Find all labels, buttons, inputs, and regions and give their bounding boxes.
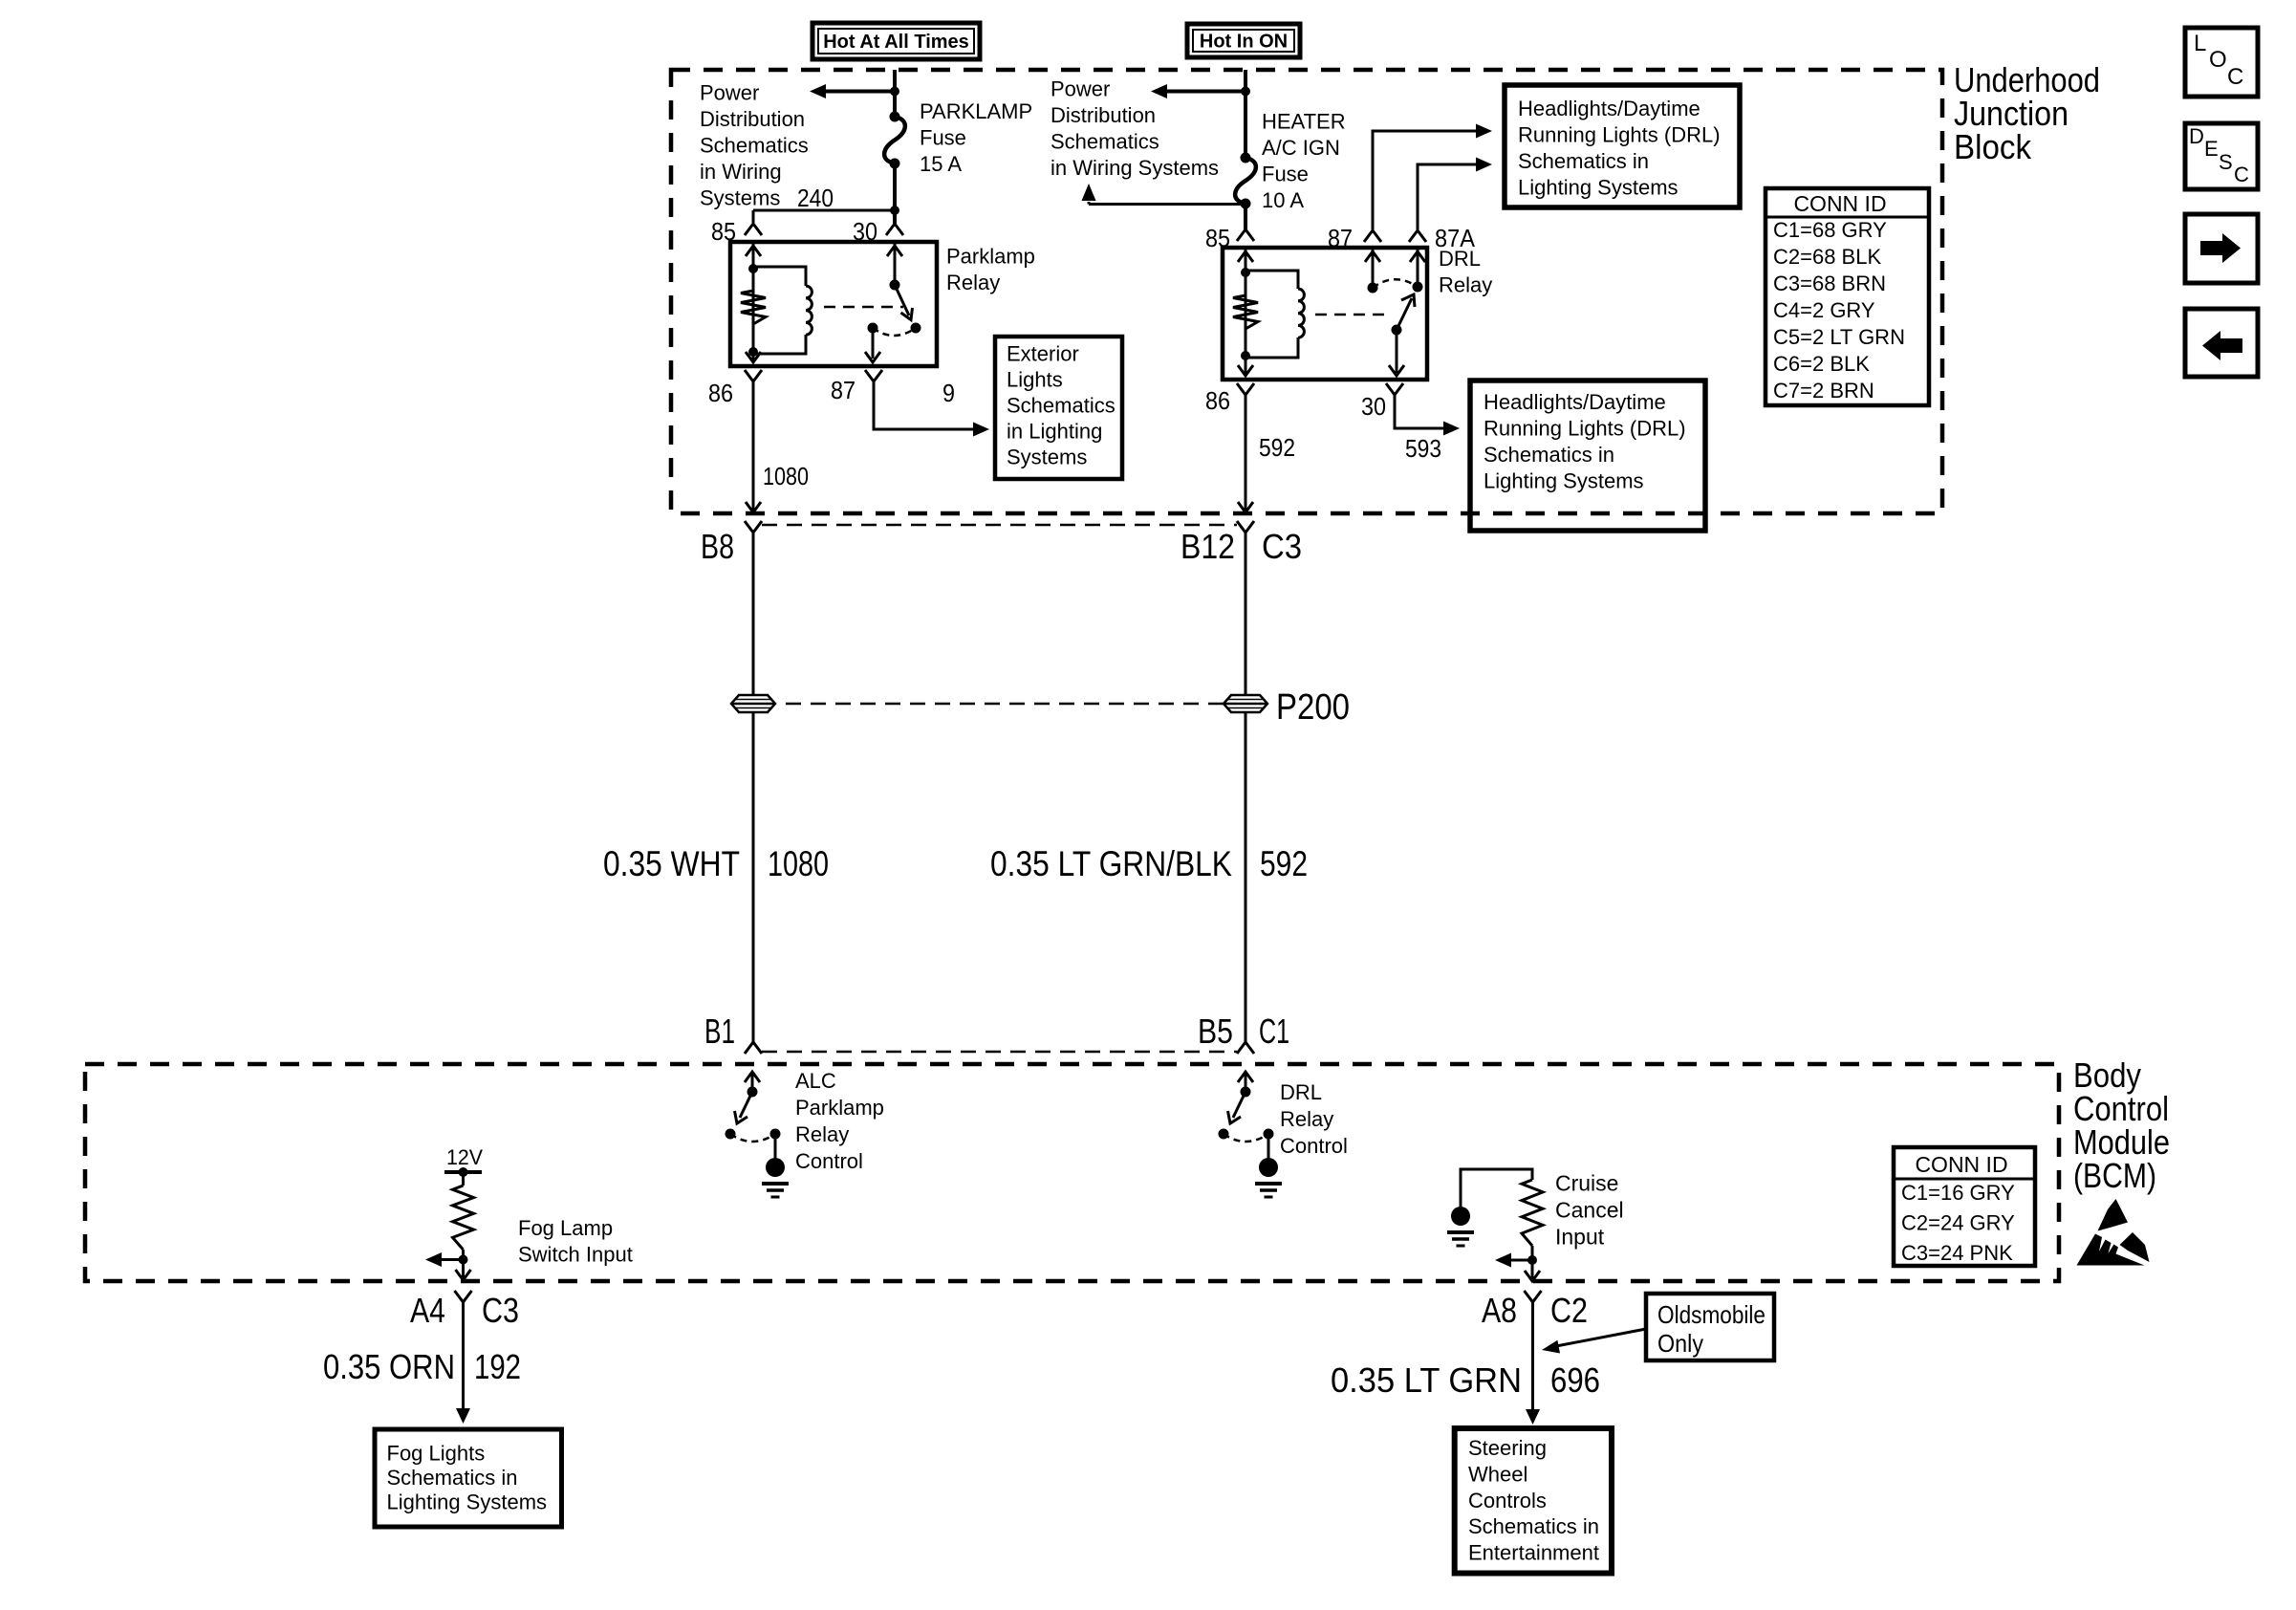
svg-text:in Wiring Systems: in Wiring Systems [1051, 156, 1219, 180]
arrow into Exterior Lights box [973, 423, 989, 437]
svg-text:Distribution: Distribution [1051, 103, 1156, 127]
arrow down at junction block boundary (592) [1238, 502, 1253, 512]
svg-text:C3=68 BRN: C3=68 BRN [1773, 272, 1886, 295]
svg-text:ALC: ALC [795, 1069, 836, 1093]
terminal fork pin 87A (DRL relay) [1409, 230, 1426, 242]
12V supply tick [444, 1170, 482, 1174]
svg-text:A4: A4 [410, 1291, 445, 1330]
svg-text:30: 30 [1361, 392, 1386, 421]
junction dot at fuse feed [890, 87, 899, 97]
terminal fork pin 85 (parklamp relay) [745, 224, 762, 235]
svg-text:Schematics in: Schematics in [1484, 443, 1614, 467]
svg-text:Cruise: Cruise [1555, 1171, 1618, 1196]
svg-text:Lights: Lights [1007, 368, 1063, 392]
arrow up inside relay at pin 30 [887, 246, 902, 256]
DRL switch 87A contact dot [1413, 282, 1423, 293]
ground (cruise) [1451, 1207, 1470, 1226]
DRL switch arm toward 87A [1397, 298, 1412, 330]
svg-text:Only: Only [1657, 1329, 1703, 1358]
svg-text:0.35 LT GRN/BLK: 0.35 LT GRN/BLK [990, 844, 1232, 883]
svg-text:C: C [2227, 64, 2243, 90]
fog lamp wire below resistor [462, 1250, 465, 1279]
arrow down at pin 30 inside DRL relay [1389, 365, 1404, 376]
junction dot coil top [748, 264, 758, 273]
svg-text:Headlights/Daytime: Headlights/Daytime [1484, 390, 1666, 414]
svg-text:Switch Input: Switch Input [518, 1243, 633, 1267]
svg-text:Fuse: Fuse [920, 126, 966, 150]
thin dashed connector line bottom [762, 1051, 1237, 1054]
DRL relay coil branch wire [1245, 248, 1247, 375]
svg-text:C6=2 BLK: C6=2 BLK [1773, 352, 1870, 376]
resistor inside parklamp relay [741, 291, 766, 324]
svg-text:Relay: Relay [1439, 273, 1492, 297]
svg-text:Systems: Systems [700, 186, 780, 210]
wire: arrow to Power Distribution (right) [1167, 90, 1245, 94]
arrow Oldsmobile Only to wire [1556, 1329, 1646, 1346]
svg-text:12V: 12V [446, 1145, 483, 1169]
arrow to Power Distribution Schematics (filled left, right feed) [1151, 84, 1167, 98]
terminal fork B5 [1237, 1042, 1254, 1054]
arrow up inside DRL relay at pin 85 [1238, 251, 1253, 262]
svg-text:A8: A8 [1482, 1291, 1517, 1330]
fog lamp junction dot [459, 1255, 468, 1265]
DRL coil top conductor [1245, 271, 1298, 289]
svg-text:DRL: DRL [1439, 247, 1481, 271]
svg-text:Power: Power [700, 81, 759, 105]
svg-text:592: 592 [1259, 433, 1295, 462]
svg-text:Schematics in: Schematics in [1468, 1514, 1599, 1538]
DRL contact dot right [1264, 1129, 1274, 1140]
terminal fork B1 [745, 1042, 762, 1054]
terminal fork pin 30 (parklamp relay) [886, 224, 903, 235]
svg-text:87: 87 [831, 376, 856, 404]
wire pin 87A feed from Headlights arrow [1418, 164, 1476, 229]
terminal fork pin 86 (DRL relay) [1237, 383, 1254, 395]
DRL control arm [1233, 1092, 1245, 1118]
arrow into Headlights box (upper) [1476, 124, 1492, 139]
parklamp relay coil branch wire (pin 85 to 86) [752, 242, 755, 361]
svg-text:86: 86 [1205, 386, 1230, 415]
svg-text:S: S [2219, 150, 2233, 174]
svg-text:CONN ID: CONN ID [1793, 191, 1886, 216]
svg-text:1080: 1080 [763, 462, 809, 490]
svg-text:0.35 ORN: 0.35 ORN [323, 1347, 455, 1386]
svg-text:593: 593 [1405, 434, 1441, 463]
DRL coil-switch linkage dashed [1315, 314, 1384, 316]
svg-text:Entertainment: Entertainment [1468, 1541, 1599, 1565]
DRL contact dot left [1219, 1129, 1229, 1140]
arrow up inside relay at pin 85 [746, 246, 761, 256]
svg-text:Block: Block [1954, 127, 2032, 166]
svg-text:Systems: Systems [1007, 446, 1087, 469]
switch arm toward right contact [895, 285, 909, 315]
svg-text:10 A: 10 A [1262, 188, 1304, 212]
wire pin 87 down and right to Exterior Lights [874, 381, 973, 429]
cruise cancel resistor [1522, 1180, 1543, 1246]
ground (DRL control) [1259, 1158, 1278, 1177]
svg-text:C3: C3 [482, 1291, 519, 1330]
box: Oldsmobile Only [1646, 1294, 1774, 1360]
wire: below heater fuse [1244, 204, 1247, 229]
svg-text:Hot At All Times: Hot At All Times [823, 32, 969, 53]
terminal fork pin 30 (DRL relay) [1386, 383, 1403, 395]
box: Fog Lights Schematics in Lighting Systems [375, 1429, 562, 1527]
junction dot coil bottom [748, 347, 758, 357]
wire: 240 branch horizontal [753, 209, 895, 212]
ESD symbol [2098, 1199, 2129, 1231]
wire pivot to pin 30 [1396, 330, 1398, 373]
button LOC [2185, 28, 2258, 97]
svg-text:Exterior: Exterior [1007, 342, 1079, 366]
terminal fork pin 87 (DRL relay) [1364, 230, 1381, 242]
box: Steering Wheel Controls Schematics in Entertainment [1455, 1428, 1612, 1574]
ALC parklamp relay control switch wire up [751, 1072, 754, 1092]
svg-text:Running Lights (DRL): Running Lights (DRL) [1518, 123, 1721, 147]
svg-text:C4=2 GRY: C4=2 GRY [1773, 298, 1875, 322]
svg-text:B5: B5 [1198, 1012, 1233, 1051]
svg-text:9: 9 [942, 379, 955, 407]
DRL switch 87 contact wire [1372, 248, 1375, 288]
terminal fork B12 [1237, 521, 1254, 533]
svg-text:Input: Input [1555, 1225, 1605, 1250]
ALC switch arm arrowhead [735, 1111, 748, 1123]
svg-text:86: 86 [708, 379, 733, 407]
arrow down at BCM boundary (fog) [456, 1270, 471, 1280]
inline connector lens left [731, 695, 775, 712]
DRL coil bottom conductor [1245, 337, 1298, 358]
fuse PARKLAMP 15A [884, 117, 905, 163]
svg-text:C: C [2234, 163, 2249, 186]
inline connector lens right (P200) [1224, 695, 1267, 712]
svg-text:C1=16 GRY: C1=16 GRY [1901, 1181, 2015, 1205]
dashed link between inline connectors [786, 703, 1224, 706]
svg-text:696: 696 [1550, 1360, 1600, 1400]
svg-text:P200: P200 [1276, 687, 1350, 728]
svg-text:Fog Lights: Fog Lights [387, 1442, 486, 1466]
arrow down inside DRL relay at pin 86 [1238, 365, 1253, 376]
DRL switch pivot dot [1392, 325, 1402, 336]
svg-text:O: O [2209, 47, 2227, 73]
arrow into Headlights box (lower) [1443, 422, 1460, 436]
thin dashed connector line top [762, 524, 1237, 527]
svg-text:1080: 1080 [768, 844, 829, 883]
switch alternate-position dashed arc [873, 328, 916, 336]
wire: Hot In ON feed vertical [1244, 70, 1247, 158]
svg-text:Oldsmobile: Oldsmobile [1657, 1300, 1765, 1329]
terminal fork pin 87 (parklamp relay) [865, 370, 882, 381]
terminal fork A4 [455, 1291, 472, 1302]
svg-text:Fuse: Fuse [1262, 163, 1309, 186]
arrow to Power Distribution Schematics (filled left) [810, 84, 826, 98]
wire pin 87 feed from Headlights arrow [1373, 131, 1476, 229]
junction dot right feed [1241, 87, 1250, 97]
ALC contact dot right [770, 1129, 781, 1140]
cruise cancel input arrow [1511, 1259, 1532, 1262]
wire-end arrow at Steering box [1526, 1409, 1540, 1425]
arrow down at junction block boundary (1080) [746, 502, 761, 512]
box: Hot At All Times [812, 23, 980, 59]
cruise junction dot [1527, 1255, 1537, 1265]
svg-text:592: 592 [1260, 844, 1308, 883]
coil bottom conductor [753, 335, 806, 354]
wire circuit 1080 inside junction block [752, 381, 755, 511]
svg-text:Distribution: Distribution [700, 107, 805, 131]
coil-switch linkage dashed [824, 306, 903, 309]
svg-text:C3=24 PNK: C3=24 PNK [1901, 1241, 2013, 1265]
svg-text:Steering: Steering [1468, 1436, 1547, 1460]
table: CONN ID BCM [1894, 1147, 2035, 1266]
fog lamp resistor [462, 1172, 465, 1186]
DRL relay control switch wire up [1245, 1072, 1247, 1092]
svg-text:D: D [2189, 124, 2204, 148]
wire: branch to Power Distribution pointer [1089, 203, 1245, 206]
svg-text:CONN ID: CONN ID [1915, 1152, 2007, 1177]
wire A8 to Steering box [1531, 1302, 1534, 1412]
table: CONN ID junction block [1765, 188, 1929, 405]
wire circuit 592 inside junction block [1245, 395, 1247, 511]
ground (ALC) [766, 1158, 785, 1177]
svg-text:C2=24 GRY: C2=24 GRY [1901, 1211, 2015, 1235]
svg-text:Control: Control [795, 1149, 863, 1173]
svg-text:Running Lights (DRL): Running Lights (DRL) [1484, 417, 1686, 441]
svg-text:PARKLAMP: PARKLAMP [920, 99, 1032, 123]
DRL switch 87 contact dot [1368, 283, 1378, 294]
svg-text:C2: C2 [1550, 1291, 1588, 1330]
wire: arrow to Power Distribution (left) [826, 90, 895, 94]
svg-text:192: 192 [474, 1347, 521, 1386]
svg-text:Relay: Relay [795, 1122, 849, 1146]
wire: Hot At All Times feed vertical [893, 70, 897, 117]
svg-text:B8: B8 [701, 527, 734, 566]
svg-text:Control: Control [1280, 1134, 1348, 1158]
DRL ground wire [1267, 1134, 1270, 1159]
svg-text:Schematics: Schematics [1007, 394, 1116, 418]
fog lamp switch input arrow [442, 1258, 464, 1261]
svg-text:A/C IGN: A/C IGN [1262, 136, 1340, 160]
button back arrow [2185, 309, 2258, 377]
coil of DRL relay [1298, 289, 1304, 337]
relay box: Parklamp Relay [730, 242, 937, 366]
arrow up inside DRL relay at 87A [1410, 251, 1425, 262]
wire contact to pin 87 [872, 328, 875, 359]
junction dot DRL coil bottom [1241, 351, 1250, 360]
wire-end arrow at Fog Lights box [456, 1408, 470, 1424]
DRL dashed arc [1224, 1134, 1268, 1142]
terminal fork A8 [1525, 1291, 1542, 1302]
wire: 240 branch elbow down to pin 85 [752, 210, 755, 223]
body control module dashed border [85, 1064, 2059, 1281]
cruise cancel top wire [1461, 1169, 1532, 1207]
svg-text:E: E [2204, 137, 2219, 161]
junction dot DRL coil top [1241, 268, 1250, 277]
svg-text:C2=68 BLK: C2=68 BLK [1773, 245, 1881, 269]
svg-text:0.35 LT GRN: 0.35 LT GRN [1331, 1360, 1522, 1400]
arrow down inside relay at pin 86 [746, 352, 761, 362]
svg-text:Parklamp: Parklamp [795, 1096, 884, 1120]
svg-text:Schematics in: Schematics in [1518, 149, 1649, 173]
DRL switch normal-position dashed arc [1373, 279, 1418, 288]
ALC switch arm [740, 1092, 752, 1118]
svg-text:15 A: 15 A [920, 152, 962, 176]
svg-text:HEATER: HEATER [1262, 110, 1346, 134]
ALC contact dot left [726, 1129, 736, 1140]
svg-text:C3: C3 [1262, 527, 1302, 566]
svg-text:Fog Lamp: Fog Lamp [518, 1216, 613, 1240]
svg-text:in Wiring: in Wiring [700, 160, 782, 184]
svg-text:B12: B12 [1180, 527, 1235, 566]
cruise wire below resistor [1531, 1246, 1534, 1280]
ALC dashed arc [730, 1134, 775, 1142]
svg-text:in Lighting: in Lighting [1007, 420, 1102, 444]
svg-text:Hot In ON: Hot In ON [1200, 32, 1288, 53]
ALC switch pivot dot [747, 1087, 758, 1098]
terminal fork pin 85 (DRL relay) [1237, 229, 1254, 241]
wire pin 30 down and right to Headlights lower box [1395, 395, 1443, 428]
coil of parklamp relay [806, 286, 812, 335]
ALC ground wire [774, 1134, 777, 1159]
svg-text:Relay: Relay [946, 271, 1000, 294]
svg-text:Controls: Controls [1468, 1489, 1547, 1512]
box: Hot In ON [1187, 24, 1300, 57]
switch contact dot right [911, 323, 921, 334]
arrow down at pin 87 inside relay [865, 352, 880, 362]
arrow up toward in Wiring Systems text [1082, 184, 1096, 201]
DRL control pivot dot [1241, 1087, 1251, 1098]
switch contact dot left (to pin 87) [868, 323, 878, 334]
svg-text:Lighting Systems: Lighting Systems [387, 1490, 548, 1514]
junction dot 240 branch [890, 206, 899, 215]
switch pivot dot [890, 280, 900, 291]
arrow down at BCM boundary (cruise) [1525, 1271, 1540, 1281]
underhood junction block dashed border [671, 70, 1942, 513]
svg-text:C1=68 GRY: C1=68 GRY [1773, 218, 1887, 242]
svg-text:Wheel: Wheel [1468, 1462, 1527, 1486]
svg-text:B1: B1 [704, 1012, 735, 1051]
terminal fork pin 86 (parklamp relay) [745, 370, 762, 381]
switch common wire from pin 30 [894, 242, 897, 285]
svg-text:(BCM): (BCM) [2073, 1156, 2156, 1195]
fuse HEATER A/C IGN 10A [1235, 158, 1256, 204]
svg-text:Relay: Relay [1280, 1107, 1333, 1131]
DRL switch 87A contact wire [1417, 248, 1419, 287]
box: Headlights DRL upper [1505, 85, 1740, 207]
button next arrow [2185, 214, 2258, 283]
svg-text:C1: C1 [1259, 1012, 1289, 1051]
svg-text:Schematics in: Schematics in [387, 1466, 518, 1490]
svg-text:C5=2 LT GRN: C5=2 LT GRN [1773, 325, 1905, 349]
wire B12 to B5 [1245, 533, 1247, 1042]
svg-text:L: L [2194, 31, 2206, 56]
svg-text:Headlights/Daytime: Headlights/Daytime [1518, 97, 1700, 120]
box: Headlights DRL lower [1470, 381, 1705, 531]
wire A4 to Fog Lights box [462, 1302, 465, 1410]
svg-text:240: 240 [797, 184, 834, 212]
button DESC [2185, 123, 2258, 189]
svg-text:Power: Power [1051, 77, 1110, 101]
relay box: DRL Relay [1223, 248, 1427, 380]
svg-text:C7=2 BRN: C7=2 BRN [1773, 379, 1874, 402]
wire B8 to B1 [752, 533, 755, 1042]
switch arm arrowhead [901, 308, 913, 320]
svg-text:Lighting Systems: Lighting Systems [1484, 469, 1644, 493]
terminal fork B8 [745, 521, 762, 533]
svg-text:Cancel: Cancel [1555, 1198, 1624, 1223]
svg-text:Lighting Systems: Lighting Systems [1518, 176, 1679, 200]
resistor inside DRL relay [1233, 295, 1258, 329]
box: Exterior Lights Schematics in Lighting Systems [995, 337, 1122, 479]
svg-text:0.35 WHT: 0.35 WHT [603, 844, 740, 883]
svg-text:DRL: DRL [1280, 1080, 1322, 1104]
coil top conductor [753, 267, 806, 286]
svg-text:Schematics: Schematics [700, 134, 809, 158]
DRL switch arm arrowhead [1401, 294, 1415, 307]
svg-text:Schematics: Schematics [1051, 130, 1159, 154]
DRL control arm arrowhead [1228, 1111, 1242, 1123]
arrow up inside DRL relay at 87 [1365, 251, 1380, 262]
wire: below parklamp fuse [893, 163, 897, 224]
arrow into Headlights box (upper, second) [1476, 158, 1492, 172]
svg-text:Parklamp: Parklamp [946, 245, 1035, 269]
